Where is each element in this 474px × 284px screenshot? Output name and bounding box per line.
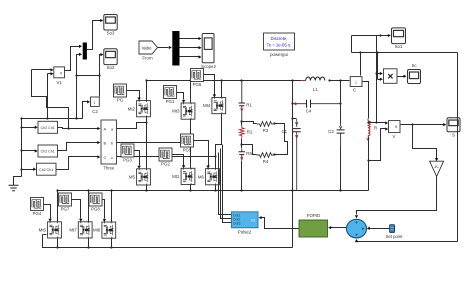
wire Mux1 to So3 (87, 21, 101, 50)
wire into V1 plus (32, 69, 51, 71)
wire V1 plus tap staircase to phase a (32, 70, 69, 129)
block V voltage measurement (389, 121, 401, 139)
wire PG8 to Mt8 gate (103, 200, 105, 219)
svg-text:i: i (94, 100, 95, 105)
arrowhead Mt7 gate (79, 219, 82, 222)
svg-text:PG8: PG8 (91, 206, 100, 211)
mosfet Mt3 (172, 103, 195, 119)
node rail M5 (145, 189, 147, 191)
wire DC top rail right part (330, 80, 350, 82)
pulse generator PG2 (159, 148, 172, 166)
wire R2 to R5 (241, 139, 243, 149)
wire phase a to leg 1 (117, 123, 147, 129)
wire to Mux1 in2 (77, 55, 80, 119)
node on V plus wire (375, 121, 377, 123)
wire bottom rail to Mt7 drain (88, 191, 90, 222)
block FOPID (299, 213, 328, 237)
wire rail to Mt4 drain (221, 81, 223, 98)
mosfet Mt2 (128, 101, 151, 117)
node phase a tap (67, 127, 69, 129)
block Cm2 measurement (38, 145, 58, 157)
node lower rail Mt7 (87, 246, 89, 248)
arrowhead into So3 (100, 19, 103, 22)
svg-text:Mt1: Mt1 (172, 174, 180, 179)
mosfet Mt6 (39, 222, 62, 238)
node leg3 phase tap (214, 155, 216, 157)
wire PG1 to Mt3 gate (177, 93, 184, 100)
svg-text:c: c (111, 155, 113, 160)
svg-text:C3: C3 (328, 129, 334, 134)
svg-text:PG7: PG7 (61, 206, 70, 211)
block V1 voltage measurement (54, 67, 65, 85)
wire bottom rail to Mt8 drain (111, 191, 113, 223)
wire Mux2 out2 to Scope2 (180, 47, 199, 49)
svg-text:M6: M6 (198, 174, 205, 179)
arrowhead V plus (385, 121, 388, 124)
scope So1 (392, 28, 406, 49)
scope So3 (104, 15, 117, 36)
arrowhead Mt8 gate (103, 219, 106, 222)
wire bus to Cm3 (22, 169, 34, 171)
wire FOPID out to Pulse2 in (262, 218, 299, 229)
wire V out to gain (413, 125, 437, 159)
wire rail to Mt3 drain (190, 81, 192, 103)
node rail leg1 (145, 79, 147, 81)
wire to V plus (369, 122, 386, 124)
node rail C4 left (291, 79, 293, 81)
svg-text:So3: So3 (107, 31, 115, 36)
wire C measurement signal up (360, 53, 362, 76)
mosfet M5 (129, 169, 151, 185)
wire junction to R3 (242, 122, 257, 124)
wire R load to bottom rail (368, 137, 370, 191)
wire rail to Mt2 drain (146, 81, 148, 101)
wire junction to R4 (242, 145, 257, 155)
wire bottom rail to Mt6 drain (57, 191, 59, 222)
wire C out down to R load (363, 82, 369, 119)
pulse generator PG1 (164, 86, 177, 104)
svg-text:B: B (104, 140, 107, 145)
wire R5 to bottom rail (241, 161, 243, 191)
branch R1 (239, 81, 253, 122)
arrowhead gain input (435, 158, 438, 161)
wire Pulse2 out2 riser (221, 149, 232, 219)
node rail M6 (214, 189, 216, 191)
gain -K- (430, 161, 444, 176)
arrowhead So1 input (388, 34, 391, 37)
mosfet Mt1 (172, 168, 195, 184)
wire Cm3 to port C (57, 157, 98, 170)
arrowhead into Mux2 (169, 46, 172, 49)
wire V out to scope S (401, 124, 444, 126)
block powergui (264, 33, 295, 57)
arrowhead Mt2 gate (137, 98, 140, 101)
sum block (347, 219, 367, 238)
pulse generator PG3 (121, 144, 134, 162)
branch R load (367, 119, 377, 141)
arrowhead V1 minus (51, 72, 54, 75)
wire long feedback top (352, 52, 458, 54)
wire long feedback bottom (357, 241, 458, 243)
arrowhead Mux1 in1 (79, 45, 82, 48)
arrowhead port A (97, 127, 100, 130)
wire voltage tap vertical (376, 36, 378, 123)
node C4 left (291, 102, 293, 104)
arrowhead C2 in (87, 100, 90, 103)
wire bus to ground (14, 177, 22, 186)
node rail C3 (339, 79, 341, 81)
svg-text:PG4: PG4 (33, 211, 42, 216)
branch R5 (239, 149, 253, 160)
wire long feedback right (457, 53, 459, 242)
node leg1 phase tap (145, 121, 147, 123)
svg-text:PG6: PG6 (193, 82, 202, 87)
arrowhead into So2 (100, 53, 103, 56)
svg-text:R2: R2 (247, 130, 253, 135)
svg-text:From: From (142, 56, 153, 61)
from tag Vabo (139, 41, 158, 61)
wire So1 net corner (351, 36, 353, 53)
wire C2 output up to So2 (100, 55, 101, 97)
wire PG7 to Mt7 gate (72, 200, 81, 219)
pulse generator PG5 (181, 134, 194, 152)
wire Mux2 out1 to Scope2 (180, 38, 199, 40)
svg-text:i: i (356, 80, 357, 85)
wire sum bottom stub (356, 241, 358, 242)
node C signal join (359, 51, 361, 53)
arrowhead M6 gate (206, 166, 209, 169)
wire lower horizontal bus (22, 118, 83, 120)
wire Mux2 out3 to Scope2 (180, 56, 199, 58)
node rail Mt6 (56, 189, 58, 191)
node bus join (20, 117, 22, 119)
wire product in2 vertical (377, 53, 379, 80)
node bottom rail crossing (291, 189, 293, 191)
wire Cm2 to port B (58, 143, 98, 151)
svg-text:R5: R5 (246, 151, 252, 156)
inductor L1 (302, 77, 325, 92)
pulse generator PG6 (191, 69, 204, 87)
svg-text:Sc: Sc (411, 63, 417, 68)
node V minus tap (367, 159, 369, 161)
arrowhead scope Sc (404, 75, 407, 78)
svg-text:C: C (353, 88, 356, 93)
mosfet Mt4 (203, 98, 226, 114)
node product in2 branch (376, 51, 378, 53)
mux Mux2 (black bar) (172, 31, 179, 66)
scope Scope2 (201, 34, 216, 70)
node product in1 branch (375, 72, 377, 74)
wire set point to sum (370, 228, 390, 230)
node lower rail Mt6 (56, 246, 58, 248)
wire gain out to sum top (357, 177, 437, 215)
capacitor C3 (328, 122, 345, 147)
svg-text:R: R (374, 126, 377, 131)
arrowhead Cm3 in (33, 168, 36, 171)
node rail Mt1 (189, 189, 191, 191)
pulse generator PG8 (89, 193, 102, 211)
wire leg1 Mt2 source to M5 drain (146, 117, 148, 169)
node rail R5 (240, 189, 242, 191)
svg-text:C: C (104, 155, 107, 160)
scope S (447, 118, 460, 138)
svg-text:R3: R3 (263, 128, 269, 133)
node leg2 phase tap (189, 141, 191, 143)
node V out branch (411, 123, 413, 125)
resistor R3 (257, 122, 275, 134)
wire PG to Mt2 gate (127, 91, 140, 98)
node bus Cm1 (20, 126, 22, 128)
svg-text:Ch2 Ch1: Ch2 Ch1 (39, 168, 53, 172)
wire R3 right to R4 right (275, 124, 288, 155)
arrowhead Cm1 in (35, 126, 38, 129)
wire stub to Mt6 left (43, 234, 47, 236)
arrowhead V1 plus (51, 68, 54, 71)
svg-text:R4: R4 (263, 159, 269, 164)
svg-text:PG: PG (117, 97, 124, 102)
mux Mux1 (small) (83, 43, 87, 60)
svg-text:L1: L1 (313, 87, 318, 92)
resistor R2 (239, 125, 253, 138)
node R4 right (273, 153, 275, 155)
wire bottom rail (58, 190, 369, 192)
svg-text:V: V (393, 134, 396, 139)
arrowhead Mt3 gate (182, 100, 185, 103)
mosfet Mt7 (69, 222, 92, 238)
wire rail down to C3 (340, 81, 342, 123)
wire Mt7 source to lower rail (88, 239, 90, 248)
wire ground bus vertical (21, 119, 23, 177)
wire feedback to So1 (352, 35, 389, 37)
arrowhead port C (97, 155, 100, 158)
capacitor C1 (282, 119, 301, 191)
node So2 branch (98, 74, 100, 76)
svg-text:PG5: PG5 (183, 147, 192, 152)
block Set point constant (386, 225, 404, 239)
wire Mt6 source to lower rail (57, 239, 59, 248)
node So1 net branch (379, 34, 381, 36)
svg-text:C4: C4 (306, 109, 312, 114)
pulse generator PG4 (31, 198, 44, 216)
node V1 minus bus join (46, 117, 48, 119)
node lower rail Mt8 (110, 246, 112, 248)
wire branch to riser (77, 75, 100, 77)
wire bus to Cm2 (22, 150, 36, 152)
node bus Cm3 (20, 168, 22, 170)
wire DC top rail left part (147, 80, 302, 82)
svg-text:Ch2 Ch1: Ch2 Ch1 (41, 126, 55, 130)
wire long vertical C4 left to source rail (292, 81, 294, 248)
arrowhead sum right input (367, 227, 370, 230)
arrowhead Scope2 in1 (199, 37, 202, 40)
node V plus tap (367, 121, 369, 123)
wire to product in1 (377, 73, 381, 75)
node C4 right to C3 (339, 102, 341, 104)
svg-text:R1: R1 (246, 102, 252, 107)
capacitor C4 (293, 100, 341, 114)
svg-text:So2: So2 (107, 65, 115, 70)
svg-text:Mt3: Mt3 (172, 109, 180, 114)
svg-text:S: S (452, 132, 455, 137)
svg-text:powergui: powergui (270, 52, 288, 57)
mosfet Mt8 (93, 222, 116, 238)
scope Sc (408, 63, 421, 84)
wire R1 to R2 (241, 122, 243, 126)
wire phase b to leg 2 (117, 142, 191, 144)
wire to V minus (369, 129, 386, 161)
wire into V1 minus (48, 73, 51, 75)
node rail leg3 (220, 79, 222, 81)
arrowhead scope S (443, 123, 446, 126)
svg-text:-K-: -K- (434, 164, 440, 169)
wire PG5 to M6 gate (194, 141, 209, 166)
wire Pulse2 out3 riser (223, 145, 232, 223)
arrowhead M5 gate (137, 166, 140, 169)
wire C4 leg to C1 top (293, 118, 297, 120)
svg-text:V1: V1 (56, 80, 62, 85)
svg-text:Mt2: Mt2 (128, 106, 136, 111)
arrowhead Scope2 in3 (199, 55, 202, 58)
wire leg2 Mt3 source to Mt1 drain (190, 120, 192, 169)
node on lower bus (75, 117, 77, 119)
wire lower source rail (43, 235, 293, 248)
node bus Cm2 (20, 149, 22, 151)
wire V1 output to Mux1 in1 (65, 47, 80, 71)
block Cm1 measurement (38, 121, 58, 133)
wire to product in2 (378, 79, 381, 81)
arrowhead FOPID in (328, 226, 331, 229)
svg-text:PG3: PG3 (123, 157, 132, 162)
arrowhead Pulse2 in (259, 216, 262, 219)
svg-text:FOPID: FOPID (307, 213, 320, 218)
node L1 right (328, 79, 330, 81)
node R1 R2 junction (240, 120, 242, 122)
svg-text:Mt8: Mt8 (93, 228, 101, 233)
node R3 right (273, 122, 275, 124)
wire into C2 (83, 102, 88, 119)
wire Cm1 to port A (58, 128, 98, 129)
svg-text:M5: M5 (129, 175, 136, 180)
wire Pulse2 out1 riser (219, 153, 232, 215)
svg-text:Three: Three (103, 166, 115, 171)
arrowhead V minus (385, 127, 388, 130)
arrowhead Scope2 in2 (199, 46, 202, 49)
wire phase c to leg 3 (117, 156, 216, 158)
svg-text:So1: So1 (395, 44, 403, 49)
svg-text:Ts = 1e-05 s.: Ts = 1e-05 s. (267, 43, 292, 48)
wire Mt8 source to lower rail (111, 239, 113, 248)
node rail Mt7 (87, 189, 89, 191)
arrowhead port B (97, 141, 100, 144)
block C2 current measurement (91, 97, 100, 114)
wire M5 source to bottom rail (146, 185, 148, 191)
arrowhead product in1 (380, 72, 383, 75)
arrowhead sum bottom input (355, 239, 358, 242)
svg-text:C1: C1 (282, 129, 288, 134)
svg-text:PG2: PG2 (161, 161, 170, 166)
block Pulse2 (232, 212, 259, 235)
wire bus to Cm1 (22, 127, 36, 129)
arrowhead product in2 (380, 78, 383, 81)
pulse generator PG7 (59, 193, 72, 211)
wire Vabo to Mux2 (158, 47, 169, 49)
mosfet M6 (198, 169, 220, 185)
svg-text:In1: In1 (251, 219, 256, 223)
block Three-Phase Transformer (101, 120, 117, 171)
arrowhead Mt1 gate (182, 165, 185, 168)
svg-text:A: A (104, 126, 107, 131)
node riser branch (75, 74, 77, 76)
arrowhead Cm2 in (35, 149, 38, 152)
wire M6 source to bottom rail (215, 185, 217, 191)
node C1 branch (291, 117, 293, 119)
wire PG2 to Mt1 gate (173, 155, 184, 166)
svg-text:PG1: PG1 (166, 99, 175, 104)
node rail C3 bottom (339, 189, 341, 191)
arrowhead sum top input (355, 215, 358, 218)
svg-text:Mt4: Mt4 (203, 103, 211, 108)
node rail R1 (240, 79, 242, 81)
svg-text:C2: C2 (92, 109, 98, 114)
wire PG4 to Mt6 gate (44, 205, 51, 219)
arrowhead Mt4 gate (213, 94, 216, 97)
svg-text:Mt6: Mt6 (39, 228, 47, 233)
svg-text:Set point: Set point (386, 234, 404, 239)
node R2 R5 junction (240, 143, 242, 145)
wire product to scope Sc (397, 76, 404, 78)
wire V1 minus to lower bus (47, 74, 49, 119)
wire C3 to bottom rail (340, 147, 342, 191)
ground (9, 185, 19, 191)
wire leg3 Mt4 source to M6 drain (216, 114, 222, 169)
product block (384, 69, 398, 84)
svg-text:Out3: Out3 (233, 222, 240, 226)
arrowhead Mux1 in2 (79, 53, 82, 56)
wire PG6 to Mt4 gate (204, 75, 215, 95)
node rail Mt8 (110, 189, 112, 191)
arrowhead Mt6 gate (48, 219, 51, 222)
svg-text:Vabo: Vabo (142, 46, 152, 51)
block Cm3 measurement (37, 163, 57, 175)
wire PG3 to M5 gate (135, 151, 140, 166)
svg-text:Mt7: Mt7 (69, 228, 77, 233)
node rail leg2 (189, 79, 191, 81)
scope So2 (104, 49, 117, 70)
pulse generator PG (114, 84, 127, 102)
wire Mt1 source to bottom rail (190, 185, 192, 191)
svg-text:Pulse2: Pulse2 (238, 230, 252, 235)
svg-text:Ch2 Ch1: Ch2 Ch1 (41, 150, 55, 154)
svg-text:Discrete,: Discrete, (271, 36, 288, 41)
resistor R4 (257, 153, 275, 165)
wire sum out to FOPID (331, 227, 347, 229)
block C current measurement (350, 77, 362, 93)
